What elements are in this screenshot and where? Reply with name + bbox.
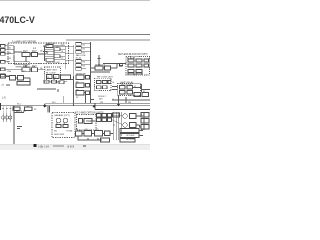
svg-text:470LC-V: 470LC-V [0, 15, 35, 25]
svg-text:V1: V1 [113, 125, 115, 127]
svg-text:KEYLESS BLOCK DP (OPT): KEYLESS BLOCK DP (OPT) [118, 54, 148, 56]
svg-text:8 8·9: 8 8·9 [68, 144, 75, 148]
svg-text:GREASE (OPT): GREASE (OPT) [54, 114, 70, 117]
svg-text:HORN RLY: HORN RLY [95, 64, 106, 66]
svg-text:D1: D1 [47, 77, 49, 79]
svg-text:D2: D2 [54, 77, 56, 79]
svg-text:LAMP SW: LAMP SW [46, 42, 55, 45]
svg-text:A5: A5 [141, 128, 143, 131]
svg-text:K2: K2 [143, 91, 145, 93]
svg-text:TOTAL: TOTAL [66, 130, 74, 133]
svg-text:R6: R6 [76, 90, 78, 92]
svg-text:R7: R7 [76, 97, 78, 99]
svg-text:LAMP UNIT: LAMP UNIT [46, 69, 58, 72]
svg-text:RLY: RLY [32, 49, 37, 53]
svg-text:RR CODE UNIT: RR CODE UNIT [97, 77, 113, 79]
svg-text:WIPER MOTOR CTRL: WIPER MOTOR CTRL [16, 66, 37, 68]
svg-text:OPTION: OPTION [126, 139, 134, 141]
svg-text:K1: K1 [134, 86, 136, 88]
svg-text:OPT AUX: OPT AUX [126, 134, 135, 137]
svg-text:AT 2 4WD OPTION UNITS: AT 2 4WD OPTION UNITS [75, 112, 104, 115]
svg-text:RL-04: RL-04 [76, 57, 81, 59]
svg-text:WL-1 4P: WL-1 4P [16, 109, 26, 113]
svg-text:HORN SW: HORN SW [76, 74, 86, 76]
svg-text:GRS PUMP: GRS PUMP [54, 134, 65, 136]
svg-text:RLY: RLY [23, 49, 28, 53]
svg-text:A1 A2 A3: A1 A2 A3 [127, 57, 136, 60]
svg-text:LIGHT SW UNIT: LIGHT SW UNIT [46, 62, 61, 64]
svg-text:5 LAMP UNIT DEFINE: 5 LAMP UNIT DEFINE [12, 41, 36, 44]
svg-text:(4P) DIODE: (4P) DIODE [121, 84, 132, 86]
svg-text:L-5: L-5 [2, 96, 6, 100]
svg-text:4WD: 4WD [86, 119, 92, 123]
svg-text:R5: R5 [76, 82, 78, 84]
svg-text:RL CODE: RL CODE [46, 73, 56, 75]
svg-text:L7: L7 [112, 99, 114, 101]
svg-text:I (9) I 14: I (9) I 14 [38, 144, 49, 148]
svg-text:(6P): (6P) [99, 98, 103, 100]
